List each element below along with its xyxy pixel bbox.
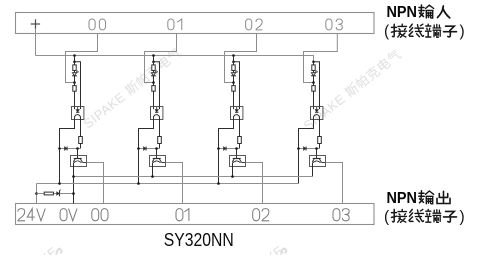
node diode row left ch2 [217,147,220,150]
resistor R23 [238,137,242,144]
wire R03 to row ch0 [80,144,82,149]
resistor R33 [318,137,322,144]
wire emitter ch1 [152,163,154,177]
svg-text:(: ( [384,23,390,40]
wire LED1 to node [153,76,155,83]
wire branch to optocoupler anode ch1 [154,62,160,107]
wire R11 to LED1 [153,71,155,73]
optocoupler U3 box [311,107,323,120]
junction node bus/channel 0 [73,54,76,57]
optocoupler U2 internal LED [235,110,238,112]
label 24V output terminal [18,209,25,221]
transistor Q1 symbol [156,156,158,159]
wire base ch3 [316,149,318,156]
node 0V bus junctions [72,175,75,178]
optocoupler U3 pins top [313,107,315,110]
node channel 1 top [152,61,155,64]
wire input terminal 02 drop [225,34,257,83]
wire collector output ch2 [246,163,263,204]
wire 24V pull line ch1 [138,149,140,184]
LED indicator D31 [311,73,315,76]
label 02 output terminal [253,209,260,221]
optocoupler U2 phototransistor arc [234,115,240,120]
wire collector output ch1 [166,163,183,204]
LED indicator D11 [151,73,155,76]
svg-text:NPN: NPN [387,4,418,21]
wire R01 to LED0 [74,71,76,73]
wire collector output ch0 [87,163,104,204]
node base ch2 [235,147,238,150]
label 0V output terminal [60,209,67,221]
24V bus [37,183,299,185]
wire optocoupler emitter to diode row ch1 [139,120,154,149]
wire branch to optocoupler anode ch0 [75,62,81,107]
wire input terminal 00 drop [66,34,98,83]
+24V input bus [36,56,314,62]
transistor Q2 symbol [236,156,238,159]
node diode row left ch1 [137,147,140,150]
wire base ch2 [236,149,238,156]
wire branch to optocoupler anode ch3 [314,62,320,107]
wire optocoupler collector down ch2 [239,120,241,137]
wire channel 2 top stub [233,56,235,62]
wire R12 to optocoupler [153,91,155,106]
optocoupler U0 box [72,107,84,120]
wire protection row [37,193,74,195]
svg-text:SY320NN: SY320NN [164,229,234,250]
LED indicator D21 [231,73,235,76]
node 0V protect junction [72,192,75,195]
wire R32 to optocoupler [313,91,315,106]
wire input terminal 03 drop [304,34,338,83]
wire LED3 to node [313,76,315,83]
wire LED2 to node [233,76,235,83]
wire + terminal drop [35,29,37,56]
label 00 input terminal [89,19,95,30]
label 03 input terminal [326,19,332,30]
svg-text:(: ( [384,208,390,225]
optocoupler U1 box [151,107,163,120]
node diode row left ch3 [297,147,300,150]
optocoupler U0 pins top [74,107,76,110]
node base ch0 [76,147,79,150]
wire optocoupler collector down ch0 [80,120,82,137]
wire collector output ch3 [326,163,343,204]
node channel 0 top [73,61,76,64]
optocoupler U3 phototransistor arc [314,115,320,120]
wire branch to optocoupler anode ch2 [234,62,240,107]
node diode row left ch0 [58,147,61,150]
transistor Q3 symbol [316,156,318,159]
diode D-protect [57,192,60,195]
wire R13 to row ch1 [159,144,161,149]
node channel 2 top [232,61,235,64]
node 24V protect junction [35,192,38,195]
optocoupler U2 box [231,107,243,120]
wire channel 1 top stub [153,56,155,62]
node channel 3 top [312,61,315,64]
junction node bus/channel 2 [232,54,235,57]
svg-text:NPN: NPN [387,190,418,207]
wire optocoupler emitter to diode row ch2 [219,120,234,149]
optocoupler U0 phototransistor arc [75,115,81,120]
optocoupler U1 internal LED [155,110,158,112]
node channel 0 mid [73,81,76,84]
wire base ch0 [77,149,79,156]
wire diode row ch1 [139,148,160,150]
svg-text:): ) [460,23,465,40]
wire R33 to row ch3 [319,144,321,149]
label 01 output terminal [176,209,183,221]
resistor R12 [153,83,155,86]
resistor R13 [158,137,162,144]
plus terminal symbol [31,23,40,25]
LED indicator D01 [72,73,76,76]
optocoupler U0 internal LED [76,110,79,112]
wire 24V pull line ch2 [218,149,220,184]
resistor R31 [313,62,315,65]
wire emitter ch2 [232,163,234,177]
node base ch3 [315,147,318,150]
wire 24V pull line ch3 [298,149,300,184]
diode D12 [144,147,146,151]
wire diode row ch3 [299,148,320,150]
resistor R11 [153,62,155,65]
resistor R-protect [44,192,53,195]
output terminal box [16,204,375,225]
optocoupler U1 pins top [153,107,155,110]
wire 24V pull line ch0 [59,149,61,184]
resistor R03 [79,137,83,144]
optocoupler U1 phototransistor arc [154,115,160,120]
transistor Q0 symbol [77,156,79,159]
wire base ch1 [156,149,158,156]
junction node bus/channel 1 [152,54,155,57]
wire R21 to LED2 [233,71,235,73]
wire emitter ch3 [312,163,314,177]
wire input terminal 01 drop [145,34,177,83]
diode D02 [65,147,67,151]
svg-text:): ) [460,208,465,225]
0V bus [74,176,313,178]
transistor Q3 box [310,156,326,167]
wire R23 to row ch2 [239,144,241,149]
label 01 input terminal [168,19,174,30]
wire R31 to LED3 [313,71,315,73]
wire 24V terminal [36,184,38,204]
wire R02 to optocoupler [74,91,76,106]
node channel 3 mid [312,81,315,84]
wire optocoupler emitter to diode row ch3 [299,120,314,149]
resistor R32 [313,83,315,86]
resistor R22 [233,83,235,86]
diode D32 [304,147,306,151]
wire diode row ch2 [219,148,240,150]
resistor R02 [74,83,76,86]
optocoupler U2 pins top [233,107,235,110]
node channel 2 mid [232,81,235,84]
wire optocoupler emitter to diode row ch0 [60,120,75,149]
wire LED0 to node [74,76,76,83]
label 03 output terminal [333,209,340,221]
label 02 input terminal [246,19,252,30]
resistor R21 [233,62,235,65]
wire optocoupler collector down ch1 [159,120,161,137]
wire optocoupler collector down ch3 [319,120,321,137]
wire channel 0 top stub [74,56,76,62]
input terminal box [16,13,375,34]
diode D22 [224,147,226,151]
optocoupler U3 internal LED [315,110,318,112]
node channel 1 mid [152,81,155,84]
transistor Q0 box [71,156,87,167]
wire diode row ch0 [60,148,81,150]
resistor R01 [74,62,76,65]
node base ch1 [155,147,158,150]
node 24V bus junctions [58,182,61,185]
wire emitter ch0 [73,163,75,204]
label 00 output terminal [92,209,99,221]
transistor Q2 box [230,156,246,167]
wire R22 to optocoupler [233,91,235,106]
transistor Q1 box [150,156,166,167]
